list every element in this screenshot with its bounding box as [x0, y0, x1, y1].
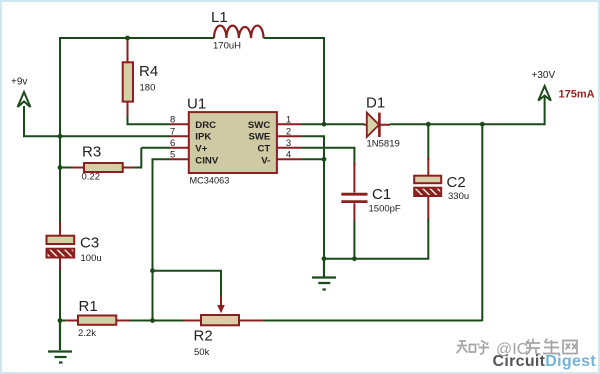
resistor R4: [127, 39, 129, 118]
wire pin5 down to bottom rail: [153, 158, 171, 321]
wire R1 to R2: [130, 320, 184, 322]
svg-text:180: 180: [140, 83, 156, 94]
svg-text:5: 5: [170, 150, 175, 161]
wire left vertical rail: [59, 37, 61, 321]
svg-text:R4: R4: [139, 63, 158, 80]
svg-text:R1: R1: [79, 298, 98, 315]
power +30V: [538, 86, 551, 101]
svg-text:CircuitDigest: CircuitDigest: [493, 353, 597, 370]
svg-text:6: 6: [170, 138, 175, 149]
glyph wang: [563, 341, 577, 354]
junction feedback node: [150, 318, 155, 323]
wire C2 to ground rail: [324, 220, 429, 259]
pin stubs U1 right: [277, 124, 302, 159]
glyph sheng: [543, 339, 560, 354]
junction C2 tap: [426, 122, 431, 127]
svg-text:0.22: 0.22: [82, 172, 101, 183]
junction pin4: [322, 157, 327, 162]
svg-text:R2: R2: [194, 328, 213, 345]
capacitor C3: [59, 222, 61, 270]
glyph hu: [478, 341, 490, 355]
glyph zhi: [457, 341, 476, 353]
glyph xian: [526, 339, 541, 355]
svg-text:SWE: SWE: [248, 132, 270, 143]
svg-text:1N5819: 1N5819: [367, 139, 400, 150]
ground symbol bottom left: [48, 321, 72, 363]
svg-text:330u: 330u: [448, 191, 469, 202]
svg-text:U1: U1: [187, 96, 206, 113]
svg-text:1500pF: 1500pF: [369, 204, 401, 215]
capacitor C2: [427, 125, 429, 221]
junction +9v rail: [58, 134, 63, 139]
wire R4 to pin8: [127, 116, 171, 124]
svg-text:V-: V-: [261, 155, 270, 166]
junction wiper tap: [150, 268, 155, 273]
pin stubs U1 left: [170, 124, 189, 159]
watermark zhihu text: [457, 341, 490, 355]
svg-text:7: 7: [170, 127, 175, 138]
svg-text:170uH: 170uH: [213, 41, 241, 52]
svg-text:175mA: 175mA: [559, 89, 595, 101]
capacitor C1: [353, 162, 355, 222]
svg-text:MC34063: MC34063: [190, 176, 230, 186]
potentiometer R2: [183, 320, 263, 322]
wire D1 to output corner: [390, 97, 546, 125]
junction top rail / R4: [125, 36, 130, 41]
svg-text:+30V: +30V: [532, 70, 556, 81]
wire C1 to ground rail: [353, 221, 355, 259]
svg-text:2: 2: [286, 127, 291, 138]
diode D1: [364, 124, 390, 126]
svg-text:100u: 100u: [81, 253, 102, 264]
svg-text:4: 4: [286, 150, 291, 161]
junction C1 ground: [352, 256, 357, 261]
svg-text:CT: CT: [258, 143, 271, 154]
wire output rail down and to R2: [263, 123, 482, 321]
power +9v: [18, 92, 31, 107]
junction bottom rail left: [58, 318, 63, 323]
wire top rail left segment: [59, 37, 214, 39]
svg-text:1: 1: [286, 115, 291, 126]
ground symbol center: [312, 259, 336, 290]
junction ground tap: [322, 256, 327, 261]
wire pin4: [302, 158, 324, 160]
svg-text:3: 3: [286, 138, 291, 149]
svg-text:R3: R3: [82, 144, 101, 161]
svg-text:SWC: SWC: [248, 120, 270, 131]
op IC U1 MC34063: [189, 112, 277, 173]
junction pin1 / top rail: [322, 122, 327, 127]
resistor R3: [61, 167, 72, 169]
svg-text:50k: 50k: [194, 347, 210, 358]
svg-text:2.2k: 2.2k: [78, 328, 96, 339]
svg-text:L1: L1: [211, 9, 228, 26]
wire R3 to pin6: [134, 148, 171, 169]
svg-text:CINV: CINV: [195, 155, 219, 166]
svg-text:V+: V+: [195, 143, 207, 154]
wire +9v to pin7: [23, 106, 170, 136]
svg-text:C3: C3: [80, 235, 99, 252]
resistor R1: [61, 320, 66, 322]
wire top rail right segment: [264, 37, 326, 125]
svg-text:C2: C2: [447, 174, 466, 191]
wire pin2 down: [302, 135, 324, 259]
svg-text:+9v: +9v: [11, 77, 27, 88]
svg-text:8: 8: [170, 115, 175, 126]
junction R3 rail: [58, 165, 63, 170]
svg-text:IPK: IPK: [195, 132, 211, 143]
junction output down tap: [480, 122, 485, 127]
inductor L1: [214, 26, 264, 38]
wire pin3 to C1: [302, 147, 354, 166]
wire wiper: [153, 270, 222, 297]
wire pin1 to D1: [302, 123, 365, 125]
svg-text:DRC: DRC: [195, 120, 216, 131]
svg-text:C1: C1: [372, 186, 391, 203]
svg-text:D1: D1: [366, 94, 385, 111]
